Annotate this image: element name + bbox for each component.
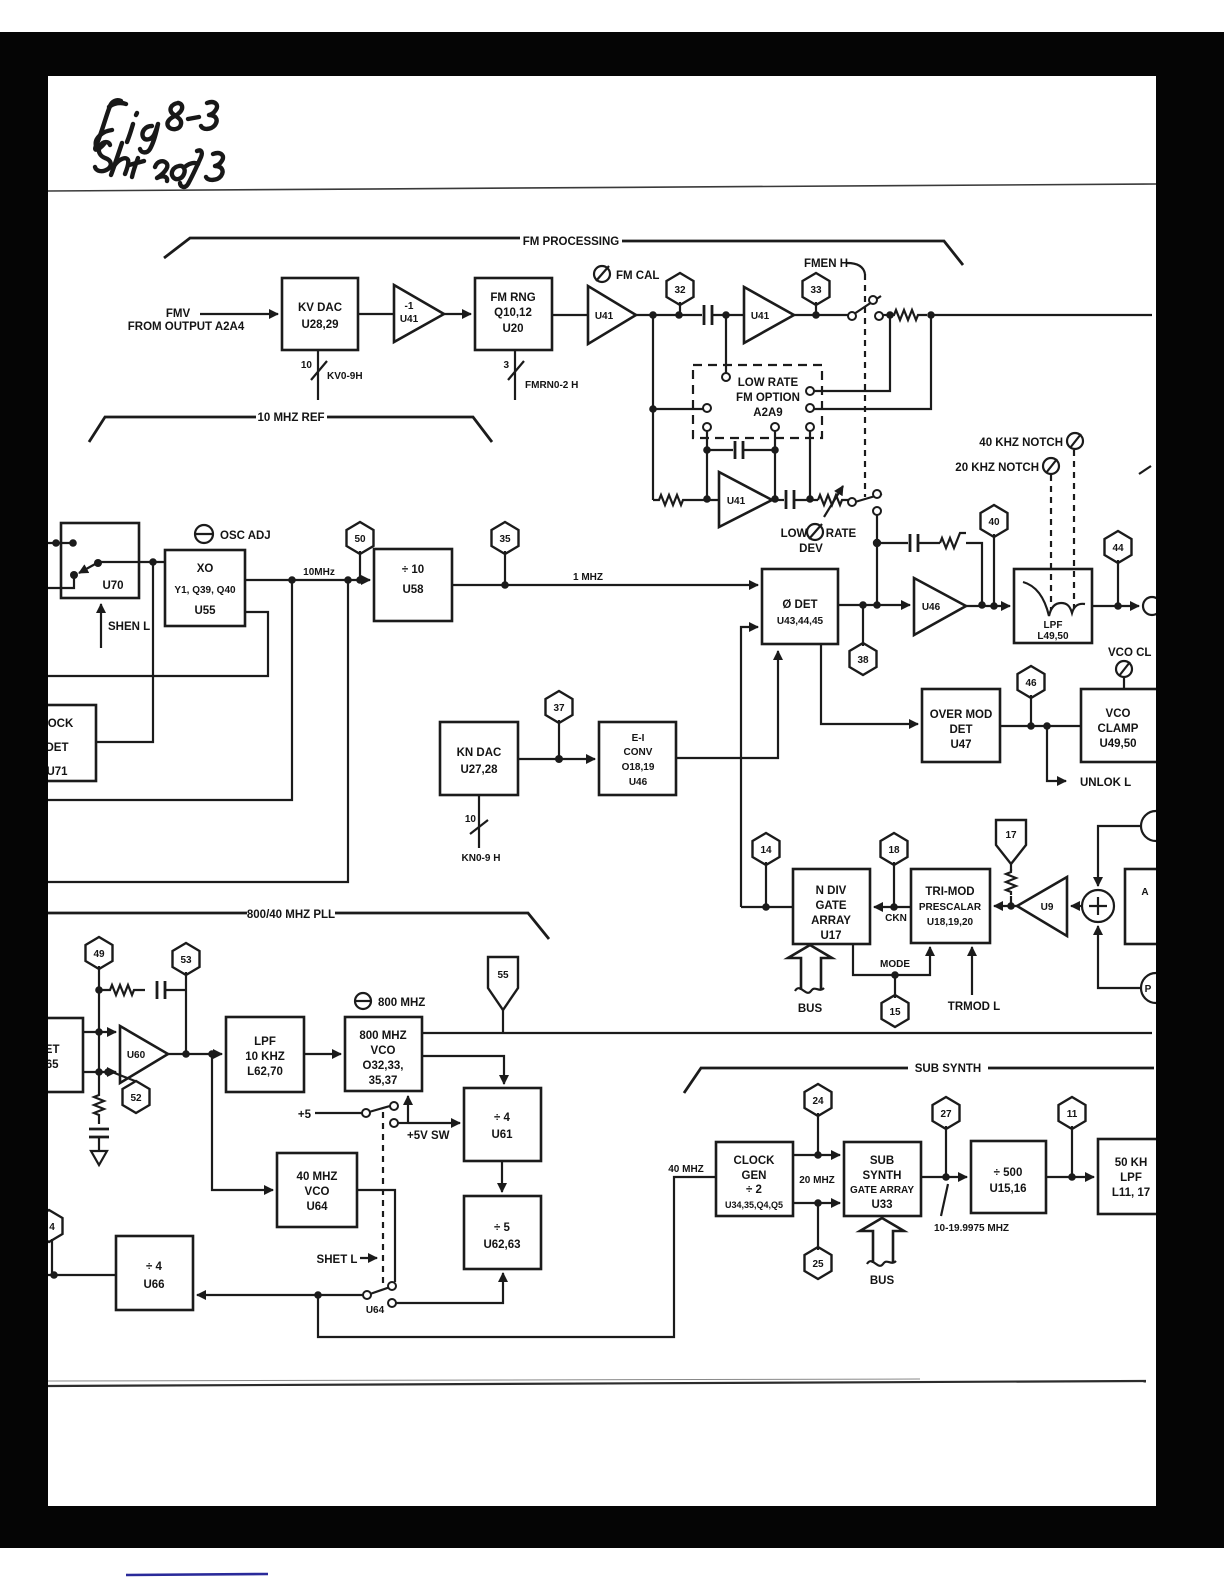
block CLOCK GEN divide-by-2 U34,35,Q4,Q5 xyxy=(716,1142,793,1216)
svg-text:10 KHZ: 10 KHZ xyxy=(245,1051,285,1063)
svg-text:LPF: LPF xyxy=(1120,1172,1142,1184)
wire external ref into U70 xyxy=(48,539,77,588)
thin rule under title xyxy=(48,184,1156,191)
wire LPF output to off-page connector xyxy=(1092,597,1161,615)
svg-text:U46: U46 xyxy=(629,777,648,788)
svg-text:O32,33,: O32,33, xyxy=(363,1060,404,1072)
block LOCK DET U71 (cut by margin) xyxy=(14,705,96,781)
svg-text:MODE: MODE xyxy=(880,959,910,970)
svg-text:U64: U64 xyxy=(306,1201,328,1213)
svg-text:LPF: LPF xyxy=(1044,620,1063,631)
block 50 KHZ LPF L11,17 (cut) xyxy=(1098,1139,1160,1214)
block N DIV GATE ARRAY U17 xyxy=(793,869,870,944)
svg-text:A: A xyxy=(1141,887,1148,898)
svg-text:3: 3 xyxy=(503,360,509,371)
block E-I CONV O18,19 U46 xyxy=(599,722,676,795)
svg-text:÷ 500: ÷ 500 xyxy=(994,1167,1023,1179)
node hexagon 38 xyxy=(850,605,877,675)
block TRI-MOD PRESCALAR U18,19,20 xyxy=(911,869,990,943)
svg-text:4: 4 xyxy=(49,1222,55,1233)
svg-text:KN DAC: KN DAC xyxy=(457,747,502,759)
svg-text:+5V SW: +5V SW xyxy=(407,1130,450,1142)
dashed SHET L control line xyxy=(382,1112,384,1285)
wire summing junction to U9 xyxy=(1071,905,1082,907)
SUB SYNTH section bracket xyxy=(684,1063,1154,1093)
svg-text:52: 52 xyxy=(130,1093,142,1104)
svg-text:U71: U71 xyxy=(46,766,68,778)
wire into divide-by-4 U66 xyxy=(48,1271,116,1279)
svg-text:FM PROCESSING: FM PROCESSING xyxy=(523,236,620,248)
10 MHZ REF section bracket xyxy=(89,412,492,442)
svg-text:25: 25 xyxy=(812,1259,824,1270)
wire U70 to XO xyxy=(99,558,165,566)
label SHEN L with arrow into U70 xyxy=(101,604,150,648)
svg-text:1 MHZ: 1 MHZ xyxy=(573,572,603,583)
bus arrow BUS into U33 xyxy=(860,1218,904,1287)
capacitor + resistor feedback across U46 xyxy=(877,533,986,609)
wire hex32 node down to option box xyxy=(725,315,727,373)
resistor (low rate input) xyxy=(653,495,689,505)
svg-text:A2A9: A2A9 xyxy=(753,407,782,419)
svg-text:FM OPTION: FM OPTION xyxy=(736,392,800,404)
svg-text:49: 49 xyxy=(93,949,105,960)
svg-text:U64: U64 xyxy=(366,1305,385,1316)
svg-text:33: 33 xyxy=(810,285,822,296)
wire XO input node down to LOCK DET xyxy=(96,562,153,742)
FM PROCESSING section bracket xyxy=(164,236,963,265)
adjust VCO CLAMP xyxy=(1108,647,1151,689)
wire XO 10MHz output xyxy=(245,567,370,584)
wire 10MHz node down-left loop A xyxy=(48,580,292,800)
svg-text:-1: -1 xyxy=(405,301,414,312)
wire CKN from prescalar to N DIV xyxy=(874,903,911,924)
node hexagon 25 xyxy=(805,1203,832,1279)
svg-text:OSC ADJ: OSC ADJ xyxy=(220,530,271,542)
op-amp U46 xyxy=(914,578,966,635)
svg-text:27: 27 xyxy=(940,1109,952,1120)
block 800 MHZ VCO O32,33,35,37 xyxy=(345,1017,422,1091)
node hexagon 50 xyxy=(347,522,374,580)
svg-text:FMRN0-2 H: FMRN0-2 H xyxy=(525,380,578,391)
svg-text:RATE: RATE xyxy=(826,528,857,540)
svg-text:FM RNG: FM RNG xyxy=(490,292,535,304)
svg-text:SYNTH: SYNTH xyxy=(863,1170,902,1182)
wire phase det bottom to over mod det xyxy=(821,644,918,724)
node pentagon 55 xyxy=(488,957,518,1033)
svg-text:OVER MOD: OVER MOD xyxy=(930,709,993,721)
label 10-19.9975 MHZ with leader xyxy=(934,1184,1009,1234)
svg-text:U62,63: U62,63 xyxy=(483,1239,520,1251)
svg-text:L11, 17: L11, 17 xyxy=(1112,1187,1150,1199)
wire 10MHz node down-left loop B xyxy=(48,580,348,882)
block LOW RATE FM OPTION A2A9 (dashed) xyxy=(693,365,822,438)
svg-text:32: 32 xyxy=(674,285,686,296)
svg-text:GATE ARRAY: GATE ARRAY xyxy=(850,1185,914,1196)
node hexagon 32 xyxy=(667,273,694,315)
switch low-rate (lower) xyxy=(848,490,882,515)
svg-text:FM CAL: FM CAL xyxy=(616,270,659,282)
svg-text:DET: DET xyxy=(950,724,973,736)
svg-text:PRESCALAR: PRESCALAR xyxy=(919,902,982,913)
svg-text:10: 10 xyxy=(465,814,477,825)
wire U41 output main FM line with capacitor xyxy=(636,305,744,325)
block divide-by-500 U15,16 xyxy=(971,1141,1046,1213)
svg-text:ARRAY: ARRAY xyxy=(811,915,851,927)
resistor + capacitor U60 feedback xyxy=(95,981,186,999)
wire U9 to prescalar xyxy=(994,905,1017,907)
block divide-by-4 U66 xyxy=(116,1236,193,1310)
svg-text:TRMOD L: TRMOD L xyxy=(948,1001,1000,1013)
wire bottom off-page connector into summing junction xyxy=(1098,926,1171,1003)
svg-text:÷ 4: ÷ 4 xyxy=(494,1112,511,1124)
wire VCO to divide-by-4 U61 xyxy=(422,1056,504,1084)
svg-text:UNLOK L: UNLOK L xyxy=(1080,777,1131,789)
svg-text:11: 11 xyxy=(1067,1109,1078,1120)
node hexagon 18 xyxy=(881,833,908,907)
svg-text:TRI-MOD: TRI-MOD xyxy=(925,886,974,898)
svg-text:38: 38 xyxy=(857,655,869,666)
op-amp U41 (-1 inverter) xyxy=(394,285,444,342)
wire resistor to U41 xyxy=(689,499,719,501)
svg-text:10-19.9975 MHZ: 10-19.9975 MHZ xyxy=(934,1223,1009,1234)
handwritten sheet note Fig 8-3 Sht 2 of 3 xyxy=(95,100,223,187)
svg-text:U15,16: U15,16 xyxy=(989,1183,1026,1195)
svg-text:14: 14 xyxy=(760,845,772,856)
svg-text:800/40 MHZ PLL: 800/40 MHZ PLL xyxy=(247,909,335,921)
node hexagon 40 xyxy=(981,505,1008,606)
svg-text:N DIV: N DIV xyxy=(816,885,847,897)
svg-text:15: 15 xyxy=(889,1007,901,1018)
block LPF L49,50 notch filter xyxy=(1014,569,1092,643)
wire resistor node down to option box pin xyxy=(814,315,931,409)
wire resistor to U9 output line xyxy=(1007,896,1015,910)
op-amp U41 (low rate) xyxy=(719,472,772,527)
wire U61 to U62 xyxy=(501,1161,503,1192)
svg-text:+5: +5 xyxy=(298,1109,312,1121)
bus stub KV0-9H pin 10 xyxy=(301,350,363,400)
node hexagon 37 xyxy=(546,691,573,759)
svg-text:CLOCK: CLOCK xyxy=(734,1155,776,1167)
svg-text:35,37: 35,37 xyxy=(369,1075,398,1087)
svg-text:SHEN L: SHEN L xyxy=(108,621,150,633)
svg-text:17: 17 xyxy=(1005,830,1017,841)
thin rule above footer xyxy=(48,1381,1146,1386)
block SUB SYNTH GATE ARRAY U33 xyxy=(844,1142,921,1216)
svg-text:10 MHZ REF: 10 MHZ REF xyxy=(257,412,324,424)
wire UNLOK L output xyxy=(1047,726,1131,789)
wire top off-page connector into summing junction xyxy=(1098,811,1171,886)
block DET U65 (cut by margin) xyxy=(8,1018,83,1092)
svg-text:U33: U33 xyxy=(871,1199,892,1211)
wire over mod det to VCO clamp xyxy=(1000,722,1081,730)
block FM RNG Q10,12 U20 xyxy=(475,278,552,350)
svg-text:U41: U41 xyxy=(727,496,746,507)
wire phase det to U46 amp xyxy=(838,601,910,609)
svg-text:FMV: FMV xyxy=(166,308,191,320)
wire KN DAC to E-I CONV xyxy=(518,755,595,763)
svg-text:U41: U41 xyxy=(751,311,770,322)
wire DET to U60 inputs xyxy=(83,990,116,1076)
op-amp U9 (points left) xyxy=(1017,877,1067,936)
svg-text:35: 35 xyxy=(499,534,511,545)
svg-text:53: 53 xyxy=(180,955,192,966)
svg-text:800 MHZ: 800 MHZ xyxy=(359,1030,406,1042)
svg-text:U34,35,Q4,Q5: U34,35,Q4,Q5 xyxy=(725,1200,783,1210)
svg-text:DEV: DEV xyxy=(799,543,823,555)
wire divide-by-500 to 50 KHZ LPF xyxy=(1046,1173,1094,1181)
wire MODE from N DIV to prescalar xyxy=(853,944,930,979)
svg-text:44: 44 xyxy=(1112,543,1124,554)
bus arrow BUS into N DIV xyxy=(788,945,832,1015)
resistor below pentagon 17 xyxy=(1006,869,1016,895)
summing junction xyxy=(1082,890,1114,922)
switch blade inside U70 xyxy=(70,559,102,579)
wire U60 output to LPF xyxy=(168,1050,222,1058)
svg-text:÷ 2: ÷ 2 xyxy=(746,1184,762,1196)
block KV DAC U28,29 xyxy=(282,278,358,350)
adjust FM CAL xyxy=(594,266,659,282)
node hexagon 27 xyxy=(933,1097,960,1177)
svg-text:LPF: LPF xyxy=(254,1036,276,1048)
svg-text:SUB: SUB xyxy=(870,1155,894,1167)
wire U41 to FMEN switch xyxy=(794,311,848,319)
svg-text:U46: U46 xyxy=(922,602,941,613)
adjust LOW RATE DEV symbol xyxy=(781,524,857,555)
block divide-by-5 U62,63 xyxy=(464,1196,541,1269)
wire +5V SW to VCO and U61 xyxy=(398,1096,460,1142)
svg-text:50: 50 xyxy=(354,534,366,545)
svg-text:FMEN H: FMEN H xyxy=(804,258,848,270)
small crease mark near right margin xyxy=(1139,466,1151,474)
block VCO CLAMP U49,50 (cut) xyxy=(1081,689,1160,762)
svg-text:DET: DET xyxy=(46,742,69,754)
block KN DAC U27,28 xyxy=(440,722,518,795)
wire N DIV output xyxy=(741,903,793,911)
resistor to ground xyxy=(94,1072,104,1124)
wire switch down to notch feedback node xyxy=(873,515,881,609)
svg-text:÷ 10: ÷ 10 xyxy=(402,564,424,576)
svg-text:÷ 4: ÷ 4 xyxy=(146,1261,163,1273)
svg-text:BUS: BUS xyxy=(798,1003,823,1015)
node hexagon 49 xyxy=(86,937,113,990)
block phase detector U43,44,45 xyxy=(762,569,838,644)
block XO Y1,Q39,Q40 U55 xyxy=(165,550,245,626)
svg-text:Ø DET: Ø DET xyxy=(782,599,817,611)
block 40 MHZ VCO U64 xyxy=(277,1153,357,1227)
svg-text:10MHz: 10MHz xyxy=(303,567,335,578)
svg-text:CKN: CKN xyxy=(885,913,907,924)
scan margin bars xyxy=(0,32,1224,76)
adjust 800 MHZ xyxy=(355,993,425,1009)
svg-text:CONV: CONV xyxy=(624,747,653,758)
svg-text:U47: U47 xyxy=(950,739,971,751)
node hexagon 52 xyxy=(112,1072,150,1113)
svg-text:U41: U41 xyxy=(400,314,419,325)
svg-text:U9: U9 xyxy=(1041,902,1054,913)
svg-text:U55: U55 xyxy=(194,605,216,617)
svg-text:KV DAC: KV DAC xyxy=(298,302,342,314)
svg-text:20 MHZ: 20 MHZ xyxy=(799,1175,835,1186)
svg-text:VCO: VCO xyxy=(1106,708,1131,720)
svg-text:U41: U41 xyxy=(595,311,614,322)
svg-text:800 MHZ: 800 MHZ xyxy=(378,997,425,1009)
wire switch lower contact to U62 bottom xyxy=(396,1273,503,1303)
node hexagon 33 xyxy=(803,273,830,315)
svg-text:U70: U70 xyxy=(102,580,123,592)
node hexagon 14 xyxy=(753,833,780,907)
svg-text:XO: XO xyxy=(197,563,214,575)
block divide-by-10 U58 xyxy=(374,549,452,621)
block AMP (cut by margin) xyxy=(1125,869,1160,944)
wire N DIV feedback up into phase det input 2 xyxy=(741,627,758,907)
wire FMV to KV DAC xyxy=(200,313,278,315)
label SHET L with arrow xyxy=(317,1254,377,1266)
svg-text:U66: U66 xyxy=(143,1279,164,1291)
adjust 40 KHZ NOTCH xyxy=(979,433,1083,608)
svg-text:U20: U20 xyxy=(502,323,523,335)
wire clock gen to sub synth (lower) xyxy=(793,1175,840,1207)
svg-text:E-I: E-I xyxy=(632,733,645,744)
node hexagon 15 xyxy=(882,975,909,1027)
svg-text:24: 24 xyxy=(812,1096,824,1107)
svg-text:U43,44,45: U43,44,45 xyxy=(777,616,824,627)
svg-text:VCO: VCO xyxy=(305,1186,330,1198)
node pentagon 17 xyxy=(996,820,1026,871)
ground symbol xyxy=(91,1151,107,1165)
svg-text:L62,70: L62,70 xyxy=(247,1066,283,1078)
bus stub FMRN0-2 H pin 3 xyxy=(503,350,578,400)
wire U46 to LPF xyxy=(966,602,1010,610)
block U70 switch xyxy=(61,523,139,598)
svg-text:U49,50: U49,50 xyxy=(1099,738,1136,750)
wire 40 MHZ VCO to switch xyxy=(357,1190,395,1282)
switch U64 xyxy=(363,1282,396,1316)
option box pin circles xyxy=(703,373,814,431)
wire E-I CONV up into phase det bottom xyxy=(676,651,778,758)
wire clock gen to sub synth (upper 20 MHz) xyxy=(793,1151,840,1159)
block divide-by-4 U61 xyxy=(464,1088,541,1161)
wire switch node down to option box pin xyxy=(814,315,890,391)
wire 800 MHz distribution line xyxy=(422,1032,1152,1034)
wire 40 MHZ loop to clock gen xyxy=(318,1164,716,1337)
node hexagon 44 xyxy=(1105,531,1132,606)
svg-text:LOW: LOW xyxy=(781,528,808,540)
node hexagon 53 xyxy=(173,943,200,1054)
svg-text:Q10,12: Q10,12 xyxy=(494,307,532,319)
svg-text:SUB SYNTH: SUB SYNTH xyxy=(915,1063,981,1075)
node hexagon 11 xyxy=(1059,1097,1086,1177)
svg-text:Y1, Q39, Q40: Y1, Q39, Q40 xyxy=(174,585,236,596)
op-amp U41 (FM enable amp) xyxy=(744,287,794,343)
svg-text:40 KHZ NOTCH: 40 KHZ NOTCH xyxy=(979,437,1063,449)
svg-text:40 MHZ: 40 MHZ xyxy=(668,1164,704,1175)
wire 1 MHZ to phase detector xyxy=(452,572,758,589)
node hexagon 35 xyxy=(492,522,519,585)
capacitor to ground xyxy=(89,1129,109,1151)
svg-text:55: 55 xyxy=(497,970,509,981)
block OVER MOD DET U47 xyxy=(922,689,1000,762)
switch FMEN (upper) xyxy=(848,296,883,320)
svg-text:10: 10 xyxy=(301,360,313,371)
wire TRMOD L input xyxy=(948,947,1000,1013)
svg-text:18: 18 xyxy=(888,845,900,856)
wire LPF to 800 MHZ VCO xyxy=(304,1053,341,1055)
svg-text:46: 46 xyxy=(1025,678,1037,689)
wire XO lower output loop to left xyxy=(48,612,268,676)
bus stub KN0-9 H pin 10 xyxy=(462,795,501,864)
svg-text:CLAMP: CLAMP xyxy=(1098,723,1139,735)
potentiometer LOW RATE DEV xyxy=(818,486,850,517)
adjust 20 KHZ NOTCH xyxy=(955,458,1059,610)
block LPF 10 KHZ L62,70 xyxy=(226,1017,304,1092)
wire resistor to right edge xyxy=(931,314,1152,316)
wire FM line branch down to low-rate path xyxy=(649,315,703,500)
800/40 MHZ PLL section bracket xyxy=(48,909,549,939)
node FMV input label xyxy=(128,308,245,333)
op-amp U60 xyxy=(120,1026,168,1083)
svg-text:KN0-9 H: KN0-9 H xyxy=(462,853,501,864)
wire U33 to divide-by-500 xyxy=(921,1173,967,1181)
svg-text:LOW RATE: LOW RATE xyxy=(738,377,799,389)
svg-text:P: P xyxy=(1145,984,1152,995)
wire U60 node down to 40 MHZ VCO xyxy=(212,1054,273,1190)
label FMEN H with dashed control line xyxy=(804,258,865,497)
wire U41 to FM RNG xyxy=(444,313,471,315)
svg-text:U60: U60 xyxy=(127,1050,146,1061)
svg-text:37: 37 xyxy=(553,703,565,714)
capacitor (low rate output) xyxy=(772,490,818,509)
svg-text:BUS: BUS xyxy=(870,1275,895,1287)
svg-text:U27,28: U27,28 xyxy=(460,764,498,776)
wire option pins down to low-rate amp nodes xyxy=(703,431,814,503)
svg-text:U18,19,20: U18,19,20 xyxy=(927,917,974,928)
svg-text:VCO CL: VCO CL xyxy=(1108,647,1151,659)
switch +5 supply xyxy=(298,1102,398,1127)
svg-text:U61: U61 xyxy=(491,1129,513,1141)
svg-text:GEN: GEN xyxy=(742,1170,767,1182)
wire switch to resistor line xyxy=(883,311,935,319)
node hexagon 46 xyxy=(1018,666,1045,726)
svg-text:L49,50: L49,50 xyxy=(1037,631,1069,642)
svg-text:FROM OUTPUT A2A4: FROM OUTPUT A2A4 xyxy=(128,321,245,333)
svg-text:SHET L: SHET L xyxy=(317,1254,358,1266)
svg-text:40: 40 xyxy=(988,517,1000,528)
op-amp U41 (FM cal amp) xyxy=(588,286,636,344)
svg-text:U58: U58 xyxy=(402,584,424,596)
blue pen mark at bottom xyxy=(126,1574,268,1575)
wire FM RNG to U41 xyxy=(552,314,588,316)
svg-text:÷ 5: ÷ 5 xyxy=(494,1222,511,1234)
resistor (FM output series) xyxy=(890,310,927,320)
svg-text:20 KHZ NOTCH: 20 KHZ NOTCH xyxy=(955,462,1039,474)
svg-text:GATE: GATE xyxy=(815,900,846,912)
node hexagon 4 (cut by margin) xyxy=(36,1210,63,1275)
svg-text:40 MHZ: 40 MHZ xyxy=(297,1171,338,1183)
wire switch common to divide-by-4 U66 xyxy=(197,1291,363,1299)
svg-text:U28,29: U28,29 xyxy=(301,319,338,331)
capacitor (low rate feedback) xyxy=(707,441,775,459)
svg-text:U17: U17 xyxy=(820,930,841,942)
svg-text:O18,19: O18,19 xyxy=(622,762,655,773)
node hexagon 24 xyxy=(805,1084,832,1155)
adjust OSC ADJ xyxy=(195,525,271,543)
wire KV DAC to U41 xyxy=(358,313,394,315)
svg-text:VCO: VCO xyxy=(371,1045,396,1057)
svg-text:50 KH: 50 KH xyxy=(1115,1157,1148,1169)
svg-text:KV0-9H: KV0-9H xyxy=(327,371,363,382)
